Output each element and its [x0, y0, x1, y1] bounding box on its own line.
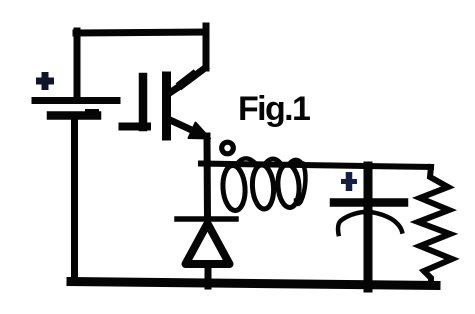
battery B1 positive plate [35, 97, 117, 104]
transistor Q1 gate lead foot [123, 123, 148, 131]
inductor L1 crossing hump 3 [290, 160, 302, 164]
inductor L1 loop 3 [277, 164, 301, 208]
inductor L1 crossing hump 1 [238, 158, 254, 162]
transistor Q1 emitter diagonal [169, 120, 197, 133]
battery plus sign [36, 72, 54, 90]
wire battery negative lead down [71, 118, 78, 282]
diode D1 anode lead down [205, 264, 212, 286]
battery B1 negative plate [51, 111, 97, 120]
transistor Q1 collector diagonal [171, 68, 205, 92]
terminal circle at switch node [222, 142, 234, 154]
wire top-right vertical drop to collector [203, 26, 210, 68]
wire emitter node vertical down to mid wire and diode [204, 136, 212, 220]
inductor L1 loop 2 [251, 164, 275, 209]
svg-text:Fig.1: Fig.1 [238, 90, 310, 128]
wire bottom rail [71, 282, 436, 286]
wire mid horizontal [201, 164, 431, 168]
capacitor C1 curved bottom plate [338, 212, 402, 234]
inductor L1 end tail [296, 164, 305, 204]
diode D1 triangle [186, 224, 230, 265]
capacitor plus sign [341, 172, 357, 191]
transistor Q1 collector diagonal thick blob [182, 76, 193, 85]
diode D1 cathode bar [177, 216, 236, 222]
transistor Q1 body bar [162, 76, 171, 136]
battery B1 negative plate end bump [88, 109, 96, 115]
resistor R1 zigzag [418, 167, 452, 284]
inductor L1 crossing hump 2 [266, 159, 280, 163]
capacitor C1 vertical lead [364, 166, 373, 288]
wire top-left vertical drop to battery [74, 31, 81, 98]
capacitor C1 top plate [334, 198, 404, 207]
inductor L1 loop 1 [221, 165, 246, 211]
wire top horizontal [76, 32, 206, 33]
transistor Q1 gate bar [139, 77, 148, 127]
transistor Q1 emitter arrowhead [189, 123, 211, 139]
